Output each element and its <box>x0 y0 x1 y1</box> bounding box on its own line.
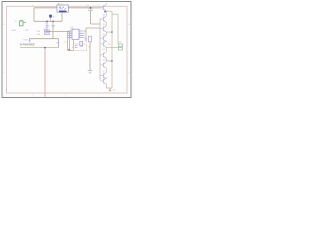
transistor Q8 <box>100 73 106 80</box>
wire: drop to lower bus <box>52 32 54 39</box>
transistor Q2 <box>100 11 106 26</box>
svg-text:5: 5 <box>70 36 71 38</box>
capacitor C2 <box>52 21 55 31</box>
resistor R1 (stack) <box>45 30 50 35</box>
wire: top-left vertical <box>33 8 35 21</box>
capacitor C3 top right <box>88 8 100 24</box>
wire: top-left horizontal <box>34 7 57 9</box>
sheet background <box>0 0 134 100</box>
svg-text:RL1: RL1 <box>58 3 63 6</box>
sheet box pink <box>74 44 87 51</box>
wire: pwr horizontal <box>20 47 59 49</box>
relay K1 box <box>57 5 68 12</box>
svg-text:9: 9 <box>80 36 81 38</box>
pink vertical bus <box>44 48 46 97</box>
svg-text:M-PWR-BRD: M-PWR-BRD <box>20 44 35 47</box>
frame tick marks <box>3 5 130 98</box>
wire: vert to pwr line <box>58 39 60 48</box>
svg-text:GN: GN <box>56 43 60 45</box>
outer page border <box>2 2 131 98</box>
wire: IC right rail <box>85 28 87 42</box>
junction Q1 e <box>104 11 106 13</box>
resistor R5 vertical <box>89 36 92 42</box>
junction lower <box>68 49 69 50</box>
rail connect top <box>112 13 118 15</box>
IC U2 box <box>68 29 85 39</box>
capacitor C1 <box>46 21 49 31</box>
wire: main mid horizontal <box>34 20 62 22</box>
wire: lower bus horizontal <box>29 38 59 40</box>
transistor Q6 <box>100 47 112 61</box>
power arrow bottom <box>109 88 111 91</box>
junction cross <box>44 47 45 48</box>
sheet box pins <box>75 46 83 48</box>
junction railA2 <box>111 60 112 61</box>
wire: box bottom lead <box>61 12 63 21</box>
junction top wire <box>90 7 91 8</box>
gnd stub left <box>29 39 31 42</box>
svg-text:GND: GND <box>23 40 28 42</box>
inner frame <box>7 6 128 93</box>
green connector J3 <box>118 44 122 50</box>
transistor Q3 <box>100 26 112 32</box>
ground symbol <box>88 71 93 74</box>
svg-text:GND: GND <box>11 30 16 32</box>
transistor Q9 <box>100 78 112 88</box>
wire: drops below IC left pins <box>67 32 69 51</box>
svg-text:U2: U2 <box>70 26 74 30</box>
resistor R6 vertical at IC right-top <box>80 41 83 46</box>
wire: box right to Q1 base <box>68 7 102 9</box>
transistor Q7 <box>100 62 106 73</box>
rail B vertical <box>117 14 119 44</box>
junction mid wire <box>52 21 53 22</box>
left bus vertical <box>99 19 101 81</box>
wire: crystal gnd horizontal <box>47 31 70 33</box>
transistor Q1 <box>93 3 112 11</box>
transistor Q4 <box>100 32 106 42</box>
green port P1 <box>20 20 26 26</box>
wire: square to mid wire <box>50 18 52 22</box>
pin numbers U2 <box>70 30 81 39</box>
junction mid wire 2 <box>46 21 47 22</box>
rail A vertical <box>111 11 113 88</box>
junction railA <box>111 31 112 32</box>
transistor Q5 <box>100 41 118 48</box>
component S1 (dark square) <box>49 15 52 18</box>
wire: R5 down <box>89 42 91 71</box>
